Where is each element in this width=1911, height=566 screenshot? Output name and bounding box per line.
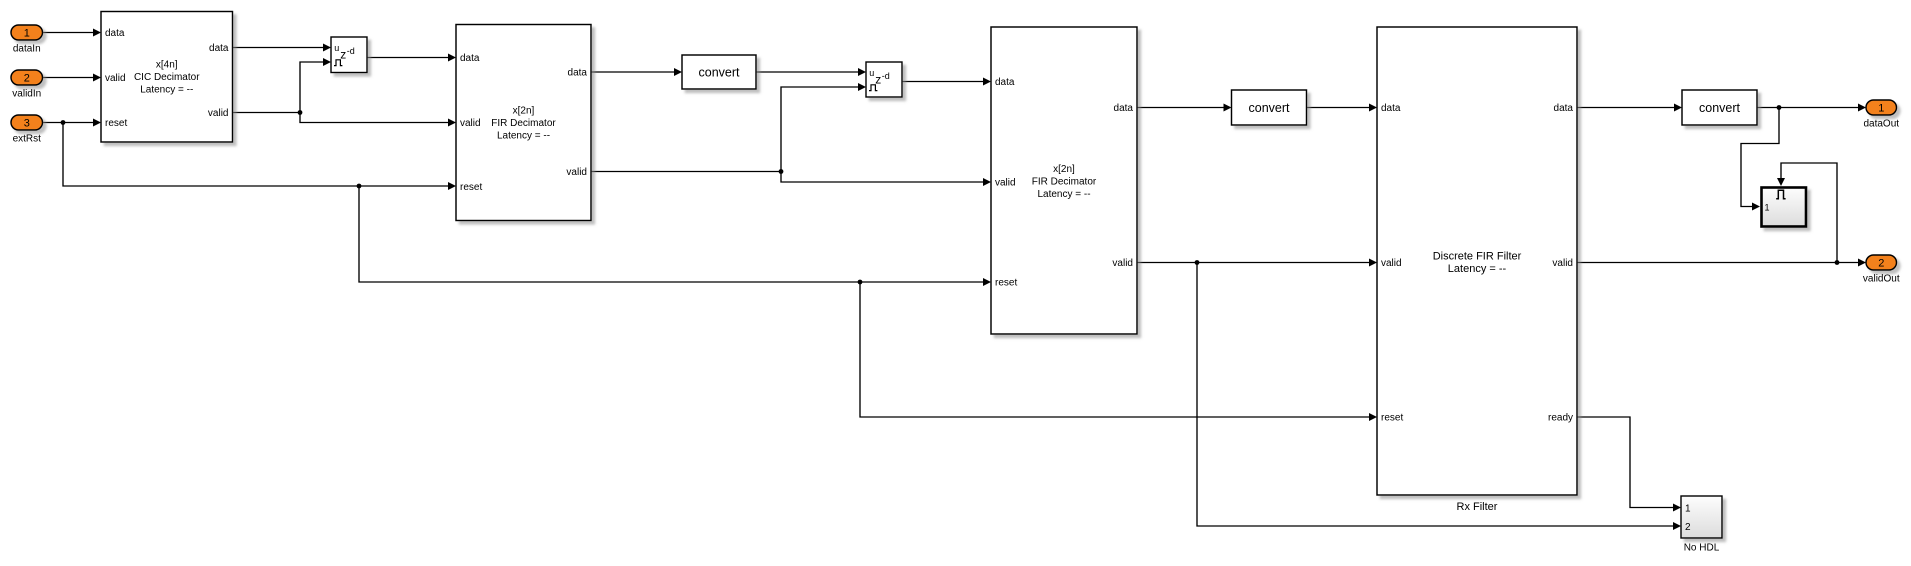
svg-text:x[2n]: x[2n] <box>1053 164 1075 175</box>
wire CIC valid branch to FIR Decimator 1 valid <box>300 113 456 127</box>
wire Rx Filter valid out to validOut <box>1577 259 1866 267</box>
wire Rx Filter ready out to No HDL port 1 <box>1577 417 1681 512</box>
node FIR2 valid junction <box>1195 260 1200 265</box>
svg-text:data: data <box>568 68 588 79</box>
wire reset chain to FIR Decimator 2 reset <box>359 186 991 286</box>
svg-text:data: data <box>1554 103 1574 114</box>
svg-text:valid: valid <box>566 167 587 178</box>
svg-text:data: data <box>1381 103 1401 114</box>
block No HDL (terminator subsystem) <box>1681 496 1722 554</box>
svg-text:FIR Decimator: FIR Decimator <box>1032 176 1097 187</box>
svg-text:valid: valid <box>208 108 229 119</box>
block Delay2 (z^-d) <box>866 62 902 97</box>
svg-text:dataOut: dataOut <box>1863 118 1899 129</box>
wire convert2 out to Rx Filter data <box>1307 104 1378 112</box>
svg-text:1: 1 <box>24 27 30 39</box>
wire FIR Decimator 2 valid out to Rx Filter valid <box>1137 259 1377 267</box>
wire FIR1 valid branch to Delay2 enable <box>781 83 866 172</box>
svg-text:valid: valid <box>1552 258 1573 269</box>
block Delay1 (z^-d) <box>331 37 367 73</box>
svg-text:convert: convert <box>1249 101 1291 115</box>
svg-text:valid: valid <box>105 73 126 84</box>
svg-text:1: 1 <box>1685 504 1691 515</box>
wire convert3 out to dataOut <box>1757 104 1866 112</box>
svg-text:CIC Decimator: CIC Decimator <box>134 72 200 83</box>
wire extRst to CIC reset <box>43 119 102 127</box>
node convert3 out junction <box>1777 105 1782 110</box>
svg-text:x[2n]: x[2n] <box>513 105 535 116</box>
block convert2 <box>1232 90 1307 125</box>
svg-text:2: 2 <box>1685 522 1691 533</box>
svg-text:reset: reset <box>1381 413 1403 424</box>
port extRst (Inport 3) <box>11 115 43 144</box>
port dataOut (Outport 1) <box>1863 100 1899 129</box>
node CIC valid junction <box>298 110 303 115</box>
svg-text:valid: valid <box>995 178 1016 189</box>
node Rx valid junction <box>1835 260 1840 265</box>
svg-text:1: 1 <box>1765 203 1770 213</box>
svg-text:Latency = --: Latency = -- <box>1037 189 1090 200</box>
svg-text:2: 2 <box>1878 257 1884 269</box>
svg-text:reset: reset <box>995 278 1017 289</box>
wire dataIn to CIC data <box>43 29 102 37</box>
node FIR1 valid junction <box>779 169 784 174</box>
block convert3 <box>1682 90 1757 125</box>
svg-text:2: 2 <box>24 72 30 84</box>
wire FIR Decimator 1 valid out trunk <box>591 171 781 173</box>
block FIR Decimator 1 <box>456 25 591 221</box>
svg-text:extRst: extRst <box>13 133 42 144</box>
block CIC Decimator <box>101 12 233 143</box>
wire reset chain to Rx Filter reset <box>860 282 1377 421</box>
svg-text:No HDL: No HDL <box>1684 543 1720 554</box>
svg-text:FIR Decimator: FIR Decimator <box>491 118 556 129</box>
block FIR Decimator 2 <box>991 27 1137 334</box>
wire FIR Decimator 2 data out to convert2 <box>1137 104 1232 112</box>
port dataIn (Inport 1) <box>11 25 43 54</box>
wire extRst branch to FIR Decimator 1 reset <box>63 123 456 191</box>
node reset chain junction 1 <box>357 184 362 189</box>
block convert1 <box>682 55 756 89</box>
wire CIC valid branch to Delay1 enable <box>300 58 331 113</box>
wire validIn to CIC valid <box>43 74 102 82</box>
svg-text:valid: valid <box>1112 258 1133 269</box>
block Rx Filter (Discrete FIR Filter) <box>1377 27 1577 513</box>
svg-text:-d: -d <box>882 71 890 81</box>
svg-text:Rx Filter: Rx Filter <box>1457 501 1498 513</box>
wire Delay1 out to FIR Decimator 1 data <box>367 54 456 62</box>
wire convert1 out to Delay2 u <box>756 68 866 76</box>
wire FIR2 valid branch to No HDL port 2 <box>1197 263 1681 531</box>
wire Rx Filter data out to convert3 <box>1577 104 1682 112</box>
svg-text:valid: valid <box>460 118 481 129</box>
port validOut (Outport 2) <box>1863 255 1900 284</box>
svg-text:u: u <box>334 43 339 53</box>
svg-text:Latency = --: Latency = -- <box>140 84 193 95</box>
wire CIC data out to Delay1 u <box>233 44 332 52</box>
svg-text:3: 3 <box>24 117 30 129</box>
svg-text:data: data <box>995 77 1015 88</box>
wire FIR Decimator 1 data out to convert1 <box>591 68 682 76</box>
svg-text:convert: convert <box>699 65 741 79</box>
svg-text:-d: -d <box>347 46 355 56</box>
svg-text:z: z <box>875 72 881 86</box>
svg-text:u: u <box>869 68 874 78</box>
svg-text:data: data <box>1114 103 1134 114</box>
svg-text:reset: reset <box>460 182 482 193</box>
node reset chain junction 2 <box>858 280 863 285</box>
svg-text:x[4n]: x[4n] <box>156 59 178 70</box>
svg-text:Latency = --: Latency = -- <box>1448 263 1507 275</box>
wire CIC valid out trunk <box>233 112 301 114</box>
wire FIR1 valid branch to FIR Decimator 2 valid <box>781 172 991 187</box>
svg-text:data: data <box>209 43 229 54</box>
svg-text:ready: ready <box>1548 413 1573 424</box>
wire Rx valid branch to rate transition top input <box>1777 163 1837 263</box>
block rate transition (state control) <box>1762 188 1807 227</box>
svg-text:convert: convert <box>1699 101 1741 115</box>
svg-text:dataIn: dataIn <box>13 43 41 54</box>
svg-text:reset: reset <box>105 118 127 129</box>
svg-text:validOut: validOut <box>1863 273 1900 284</box>
svg-text:validIn: validIn <box>12 88 41 99</box>
wire convert3 branch to rate transition input 1 <box>1741 108 1779 211</box>
svg-text:data: data <box>460 53 480 64</box>
node extRst branch junction <box>61 120 66 125</box>
svg-text:Discrete FIR Filter: Discrete FIR Filter <box>1433 250 1522 262</box>
port validIn (Inport 2) <box>11 70 43 99</box>
svg-text:valid: valid <box>1381 258 1402 269</box>
wire Delay2 out to FIR Decimator 2 data <box>902 78 991 86</box>
svg-text:1: 1 <box>1878 102 1884 114</box>
svg-text:data: data <box>105 28 125 39</box>
svg-text:z: z <box>340 47 346 61</box>
svg-text:Latency = --: Latency = -- <box>497 130 550 141</box>
